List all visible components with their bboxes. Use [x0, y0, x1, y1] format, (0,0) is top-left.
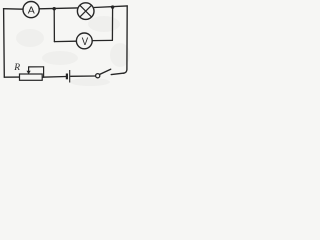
battery cell	[67, 70, 70, 83]
rheostat slider wire	[29, 67, 44, 77]
wire voltmeter branch right horizontal	[92, 39, 112, 41]
voltmeter V	[76, 33, 92, 49]
wire voltmeter branch left vertical	[53, 9, 55, 42]
svg-text:V: V	[82, 36, 89, 48]
node junction right of voltmeter branch	[111, 5, 114, 8]
wire left vertical	[3, 9, 6, 78]
wire battery to switch	[71, 75, 96, 77]
wire lamp to top-right corner	[94, 6, 127, 8]
wire right vertical	[124, 6, 128, 73]
rheostat slider arrowhead	[27, 71, 31, 75]
wire bottom-left to rheostat	[4, 76, 19, 78]
lamp	[77, 3, 94, 20]
wire rheostat to battery	[42, 76, 66, 79]
wire voltmeter branch right vertical	[111, 7, 113, 40]
resistor R (rheostat box)	[20, 74, 43, 80]
node junction left of voltmeter branch	[53, 7, 56, 10]
wire voltmeter branch left horizontal	[54, 40, 76, 42]
ammeter A	[23, 2, 39, 18]
switch S	[96, 69, 111, 78]
svg-text:R: R	[13, 63, 20, 73]
wire top-left (node to ammeter)	[4, 8, 23, 11]
wire switch to bottom-right corner	[111, 73, 124, 75]
svg-text:A: A	[28, 5, 35, 17]
wire ammeter to lamp	[39, 7, 77, 10]
